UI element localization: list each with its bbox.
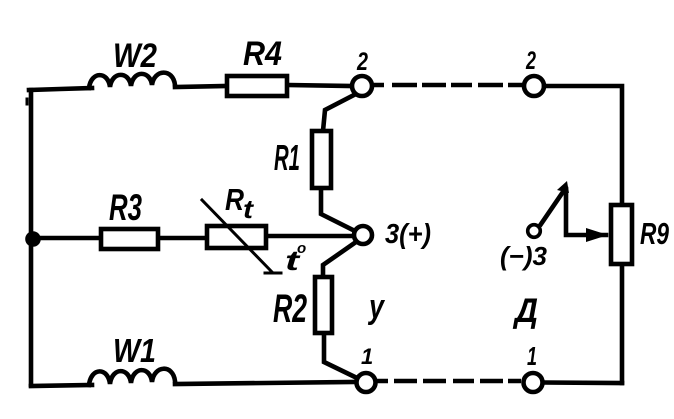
svg-text:(−)3: (−)3 [500, 241, 548, 271]
svg-text:Д: Д [512, 292, 538, 330]
svg-text:R2: R2 [273, 287, 307, 331]
svg-text:1: 1 [527, 341, 537, 371]
svg-text:2: 2 [525, 47, 536, 75]
svg-text:R1: R1 [274, 137, 300, 178]
svg-text:y: y [367, 288, 385, 326]
svg-text:o: o [297, 240, 306, 257]
svg-text:R: R [225, 182, 245, 217]
svg-text:3(+): 3(+) [385, 218, 431, 249]
svg-text:R9: R9 [640, 216, 670, 251]
svg-text:R4: R4 [243, 35, 282, 73]
svg-text:t: t [243, 194, 255, 224]
svg-text:1: 1 [361, 344, 373, 369]
svg-text:R3: R3 [109, 187, 142, 228]
svg-text:W1: W1 [113, 332, 156, 369]
svg-text:2: 2 [356, 48, 368, 76]
svg-text:W2: W2 [113, 37, 157, 75]
